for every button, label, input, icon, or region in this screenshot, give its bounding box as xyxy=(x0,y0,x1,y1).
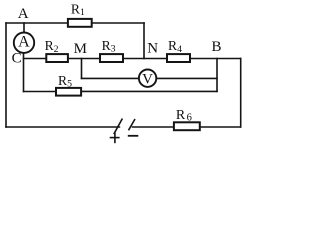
wire voltmeter left lead from M branch xyxy=(82,77,139,79)
wire left border vertical xyxy=(5,23,7,127)
wire R2 to R3 through node M xyxy=(69,58,99,60)
svg-text:R: R xyxy=(176,108,186,123)
wire R5 right lead to B branch vertical xyxy=(82,90,217,92)
svg-text:V: V xyxy=(142,71,153,87)
svg-text:R4: R4 xyxy=(168,38,182,55)
resistor R3 xyxy=(100,54,123,62)
svg-text:M: M xyxy=(74,41,87,57)
svg-text:A: A xyxy=(18,34,30,51)
wire C branch corner to R5 xyxy=(24,91,56,93)
ammeter A1 xyxy=(14,33,34,53)
svg-text:R2: R2 xyxy=(45,38,59,55)
resistor R5 xyxy=(56,88,81,96)
wire node M vertical down to voltmeter row xyxy=(81,59,83,79)
svg-text:C: C xyxy=(12,51,22,67)
resistor R6 xyxy=(174,122,200,130)
wire node C to R2 xyxy=(24,58,46,60)
battery negative sign xyxy=(128,135,139,137)
resistor R1 xyxy=(68,19,92,27)
battery positive sign xyxy=(110,133,120,144)
battery positive terminal blade xyxy=(114,119,123,135)
wire vertical from top wire down to node N xyxy=(143,23,145,59)
voltmeter V1 xyxy=(139,70,156,88)
wire battery negative terminal to R6 xyxy=(133,126,174,128)
resistor R4 xyxy=(167,54,190,62)
wire ammeter bottom lead down through node C to R5 branch corner xyxy=(23,53,25,92)
wire voltmeter right lead to B branch xyxy=(157,77,217,79)
svg-text:R1: R1 xyxy=(71,1,85,18)
wire R4 to right border through node B xyxy=(191,58,241,60)
svg-text:A: A xyxy=(18,6,29,22)
wire bottom-left to battery positive terminal xyxy=(6,126,119,128)
wire R6 to bottom-right corner xyxy=(201,126,241,128)
wire node B vertical down to R5 row xyxy=(216,59,218,92)
svg-text:B: B xyxy=(212,39,222,55)
resistor R2 xyxy=(46,54,68,62)
wire top-left segment xyxy=(6,22,67,24)
svg-text:N: N xyxy=(147,41,158,57)
battery negative terminal blade xyxy=(129,119,136,130)
wire ammeter top lead xyxy=(23,23,25,33)
wire right border vertical xyxy=(240,59,242,128)
wire R3 to R4 through node N xyxy=(124,58,166,60)
svg-text:R5: R5 xyxy=(58,73,72,90)
svg-text:R3: R3 xyxy=(102,38,116,55)
wire top-right segment xyxy=(93,22,145,24)
svg-text:6: 6 xyxy=(187,112,192,123)
